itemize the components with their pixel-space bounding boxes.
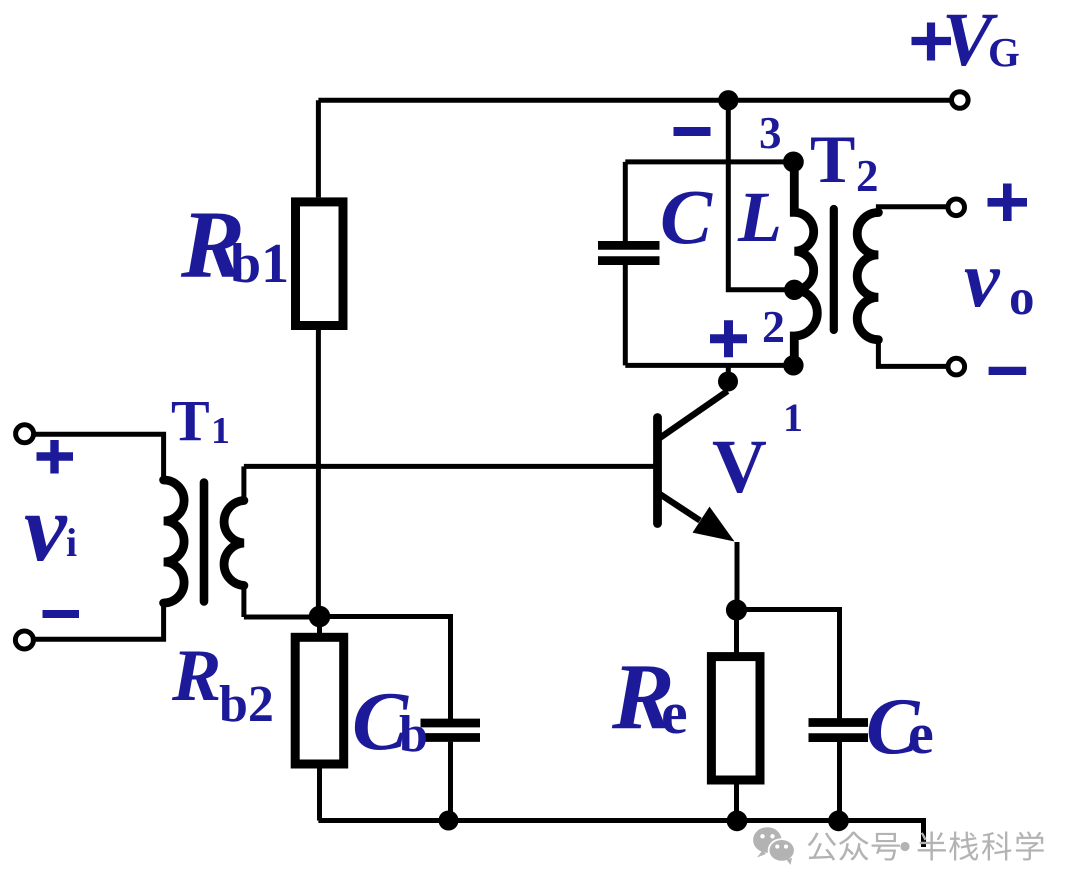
terminal: vi - — [15, 631, 33, 649]
transformer T2 core — [830, 209, 838, 330]
wire: base — [244, 464, 654, 469]
capacitor Cb — [320, 617, 481, 821]
svg-text:v: v — [24, 474, 68, 581]
resistor Rb2 — [295, 617, 344, 821]
wire: input bottom — [34, 603, 164, 639]
junction dot: bias divider node — [309, 606, 331, 628]
wire: emitter drop — [735, 542, 740, 610]
node 3 dot — [783, 152, 804, 173]
label + (node 2 polarity) — [710, 320, 747, 357]
label +VG — [912, 23, 952, 61]
junction dot: VG rail to tank tap — [718, 90, 738, 110]
T1 secondary coil — [224, 466, 244, 617]
wire: node 2 (C bottom to L bottom) — [625, 363, 793, 368]
svg-text:i: i — [66, 520, 77, 565]
wire: input top — [34, 434, 164, 480]
T2 secondary coil and output wires — [857, 207, 948, 367]
transformer T1 core — [200, 483, 209, 602]
junction dot: Re bottom — [727, 810, 748, 831]
junction dot: emitter node — [726, 599, 747, 620]
svg-text:R: R — [171, 635, 221, 717]
junction dot: collector to node 2 — [718, 372, 738, 392]
svg-text:e: e — [908, 701, 934, 766]
junction dot: Ce bottom — [828, 810, 849, 831]
label - (node 3 polarity) — [674, 127, 711, 136]
svg-text:L: L — [737, 177, 782, 257]
svg-text:C: C — [660, 173, 713, 260]
svg-text:1: 1 — [783, 395, 803, 440]
label - (vo) — [989, 367, 1027, 375]
svg-text:b1: b1 — [230, 233, 289, 295]
node 2 dot — [783, 355, 803, 375]
terminal: +VG supply — [952, 92, 969, 109]
svg-text:T: T — [171, 388, 210, 453]
svg-text:G: G — [988, 29, 1020, 75]
svg-text:T: T — [810, 121, 855, 197]
capacitor C — [598, 162, 660, 366]
resistor Re — [711, 610, 760, 821]
wire: collector stub — [726, 365, 731, 375]
terminal: vo + — [948, 199, 965, 216]
svg-text:2: 2 — [762, 301, 785, 352]
wire: T1 secondary to bias node — [244, 615, 320, 620]
label - (vi) — [43, 610, 80, 618]
resistor Rb1 — [296, 100, 344, 616]
junction dot: coil tap (pin 2) — [784, 280, 804, 300]
inductor L / T2 primary coil — [794, 162, 817, 365]
wire: top +VG rail — [318, 98, 951, 103]
transistor V — [658, 391, 735, 542]
T1 primary coil — [164, 480, 185, 603]
label + (vo) — [988, 184, 1028, 222]
junction dot: Cb bottom — [439, 811, 459, 831]
wire: VG drop to coil tap — [728, 100, 786, 289]
svg-text:1: 1 — [211, 410, 230, 452]
watermark: WeChat icon — [753, 827, 796, 865]
wire: bottom rail — [318, 821, 923, 848]
svg-text:3: 3 — [759, 108, 782, 158]
svg-text:e: e — [661, 680, 688, 746]
svg-text:V: V — [712, 425, 767, 509]
label + (vi) — [37, 440, 74, 474]
terminal: vi + — [16, 425, 34, 443]
capacitor Ce — [737, 610, 869, 821]
watermark text — [808, 831, 1044, 860]
svg-text:b: b — [399, 706, 428, 763]
wire: node 3 (C top to L top) — [625, 159, 793, 164]
svg-text:2: 2 — [856, 151, 879, 201]
svg-text:o: o — [1009, 270, 1035, 326]
svg-text:v: v — [964, 236, 1001, 324]
terminal: vo - — [948, 358, 965, 375]
svg-text:b2: b2 — [219, 676, 274, 733]
